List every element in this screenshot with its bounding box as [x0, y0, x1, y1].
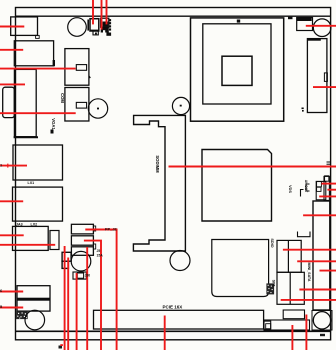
AV OUT symbol [301, 184, 310, 197]
bottom long connector [264, 320, 310, 330]
leader wire SD1 [283, 249, 336, 251]
leader wire BT2 [67, 258, 69, 350]
PCIE x16 slot [94, 310, 264, 329]
leader wire SATA1 [320, 270, 336, 272]
pin1 mark [302, 108, 304, 110]
mounting circle bottom-left [25, 310, 45, 330]
hatch block A [16, 311, 28, 319]
connector R4 [13, 145, 63, 180]
leader wire CN8 [291, 325, 293, 350]
connector R6 [13, 226, 49, 250]
leader wire CN3 [0, 83, 25, 85]
leader wire CN2 [0, 49, 23, 51]
leader wire AV1 [321, 183, 336, 185]
leader wire J3 [106, 0, 108, 24]
bottom band line [16, 330, 331, 332]
bottom small connector [283, 310, 304, 319]
leader wire SIM2 [281, 299, 336, 301]
connector R2 [14, 41, 53, 66]
socket S1 [65, 49, 89, 86]
S2 key notch [76, 102, 86, 108]
leader wire CN5 [0, 307, 23, 309]
svg-text:J30: J30 [85, 274, 91, 278]
FP header block row2 [71, 236, 93, 245]
small blocks left of battery [62, 252, 71, 261]
svg-text:J5: J5 [97, 249, 101, 253]
top small connector cluster [68, 18, 111, 37]
bottom-right mount square + circle [312, 311, 332, 331]
leader wire SIM1 [299, 289, 336, 291]
leader wire AV3 [319, 195, 336, 197]
big center square (chipset) [202, 150, 272, 222]
leader tick BT1 [60, 344, 63, 346]
small port with filled top (top-right) [297, 18, 313, 31]
svg-text:COM: COM [60, 93, 65, 103]
leader wire CN6 [0, 291, 23, 293]
small U bracket [298, 232, 311, 237]
leader wire USB1 [0, 234, 24, 236]
battery circle [71, 251, 91, 271]
svg-text:PCIE 16X: PCIE 16X [163, 305, 183, 310]
leader wire DC1 [313, 86, 336, 88]
mounting circle bottom-center [170, 251, 190, 271]
leader wire CN1 [0, 26, 24, 28]
top band line [16, 15, 331, 17]
left protruding connector [3, 87, 15, 117]
leader wire FP3 [86, 247, 88, 350]
FP header block row3 [71, 247, 93, 256]
leader wire LAN1 [0, 165, 27, 167]
connector R1 top-left [11, 17, 38, 36]
FP header block row1 [71, 224, 93, 234]
SD slots lower [277, 272, 304, 304]
tiny label L3 [51, 130, 54, 134]
mounting circle mid-center [172, 97, 189, 114]
FP tabs [93, 226, 95, 231]
svg-text:LX2: LX2 [31, 222, 38, 226]
leader wire BT1 [64, 246, 66, 350]
svg-text:SDIO: SDIO [270, 238, 274, 247]
leader wire PCIE1 [164, 316, 166, 350]
mounting circle top-right [313, 19, 331, 37]
leader wire COM1 [0, 68, 76, 70]
leader wire SD2 [297, 260, 336, 262]
leader wire COM2 [0, 112, 76, 114]
notch on its right edge [324, 73, 327, 82]
leader wire J30 [76, 273, 78, 350]
svg-text:AV OUT: AV OUT [304, 180, 308, 193]
DC jack tall rect right [307, 39, 327, 113]
CPU middle square [203, 24, 271, 104]
mSATA socket [212, 240, 269, 297]
leader tick LAN1 [7, 164, 9, 168]
leader wire FP_J2 [85, 230, 116, 350]
leader wire JA3 [0, 200, 23, 202]
mark at R2 corner [53, 60, 55, 66]
right edge ticks [327, 161, 331, 163]
svg-text:SIM: SIM [272, 280, 276, 287]
SD slots upper [277, 240, 301, 272]
step under R1 [36, 35, 40, 38]
mounting circle mid-left [88, 99, 107, 118]
hatch block B [266, 283, 274, 294]
leader wire FP2 [84, 241, 101, 350]
connector R5 [13, 187, 63, 221]
leader wire J1 [92, 0, 94, 24]
svg-text:SODIMM: SODIMM [155, 155, 160, 173]
leader wire H1 [306, 25, 336, 27]
bottom-right marks [320, 334, 325, 336]
leader wire J2 [101, 0, 103, 30]
svg-text:15A: 15A [97, 254, 104, 258]
svg-text:JA3: JA3 [16, 222, 23, 226]
R3 bottom lip [14, 136, 38, 138]
svg-text:MINI_SATA: MINI_SATA [307, 263, 311, 282]
jumper under battery [73, 272, 86, 279]
svg-text:VGA1: VGA1 [51, 118, 56, 130]
leader wire USB2 [0, 244, 55, 246]
connector R3 tall [14, 69, 36, 136]
small connector box [316, 181, 326, 199]
leader wire MINI1 [303, 214, 336, 216]
narrow connector right of R6 [50, 231, 59, 250]
svg-text:FP_J2: FP_J2 [105, 226, 118, 231]
band mark [288, 17, 293, 20]
CPU top tick [237, 20, 240, 23]
leader wire SODIMM1 [169, 166, 336, 168]
svg-text:VDS: VDS [288, 185, 292, 193]
mini card connector right [313, 201, 330, 310]
CPU die square [222, 56, 252, 85]
bottom-left double connector [17, 286, 50, 311]
SODIMM bracket [133, 115, 185, 251]
socket S2 [65, 88, 89, 122]
bottom tiny mark [59, 346, 63, 349]
leader wire CN9 [305, 315, 307, 350]
leader wire AV2 [327, 189, 336, 191]
S1 key notch [76, 65, 86, 71]
svg-text:LX1: LX1 [28, 181, 35, 185]
CPU outer square [191, 18, 284, 121]
S1 edge tick [89, 76, 90, 78]
